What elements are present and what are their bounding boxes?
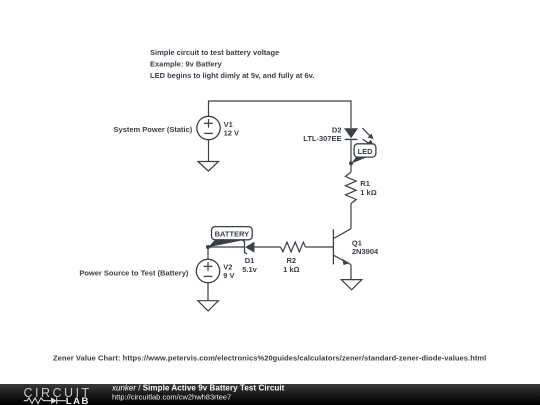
svg-text:2N3904: 2N3904: [352, 247, 379, 256]
svg-text:Simple circuit to test battery: Simple circuit to test battery voltage: [150, 48, 279, 57]
node: battery net junction dot: [206, 245, 210, 249]
diode D1 zener: [242, 240, 255, 254]
node LED (callout flag): [351, 144, 376, 164]
diode D2 LED LTL-307EE: [344, 128, 374, 145]
svg-text:D2: D2: [332, 126, 342, 135]
wire: D2 to R1: [350, 139, 352, 172]
wire: Q1 emitter to ground: [350, 265, 352, 280]
svg-text:V1: V1: [224, 120, 233, 129]
svg-text:http://circuitlab.com/cw2hwh83: http://circuitlab.com/cw2hwh83rtee7: [112, 393, 231, 402]
svg-text:System Power (Static): System Power (Static): [114, 125, 193, 134]
label D2 LTL-307EE: [303, 126, 341, 144]
wire: node to D1: [208, 246, 244, 248]
resistor R2: [281, 242, 306, 252]
label Q1 2N3904: [352, 239, 379, 257]
annotation: circuit description text: [150, 48, 314, 80]
node: LED net junction dot: [349, 161, 353, 165]
svg-text:R1: R1: [360, 179, 370, 188]
svg-text:BATTERY: BATTERY: [215, 230, 250, 239]
node BATTERY (callout flag): [208, 227, 252, 248]
label R1 1 kOhm: [360, 179, 376, 197]
svg-text:Example: 9v Battery: Example: 9v Battery: [150, 60, 223, 69]
svg-text:9 V: 9 V: [223, 271, 234, 280]
svg-text:12 V: 12 V: [224, 129, 239, 138]
svg-text:LED begins to light dimly at 5: LED begins to light dimly at 5v, and ful…: [150, 71, 314, 80]
wire: V1 to ground: [208, 140, 210, 162]
transistor Q1: [333, 229, 351, 265]
svg-text:1 kΩ: 1 kΩ: [360, 188, 376, 197]
svg-text:1 kΩ: 1 kΩ: [283, 265, 299, 274]
svg-text:LAB: LAB: [66, 396, 90, 405]
ground under Q1: [341, 280, 362, 290]
svg-text:V2: V2: [223, 262, 232, 271]
ground under V2: [198, 301, 219, 311]
voltage source V2: [196, 259, 219, 282]
logo CircuitLab: [24, 386, 92, 405]
svg-text:LED: LED: [358, 147, 374, 156]
voltage source V1: [197, 116, 220, 139]
svg-text:LTL-307EE: LTL-307EE: [303, 134, 341, 143]
wire: R2 to Q1 base: [306, 246, 334, 248]
resistor R1: [345, 172, 356, 204]
label V1 12 V: [224, 120, 239, 138]
wire: top rail from V1 to D2 branch: [209, 101, 352, 128]
label D1 5.1v: [242, 256, 257, 274]
svg-text:5.1v: 5.1v: [242, 265, 257, 274]
wire: R1 to Q1 collector: [350, 204, 352, 229]
wire: V2 to ground: [207, 283, 209, 301]
emitter arrowhead of Q1: [342, 259, 349, 265]
label R2 1 kOhm: [283, 256, 299, 274]
svg-text:Power Source to Test (Battery): Power Source to Test (Battery): [79, 268, 189, 277]
wire: D1 to R2: [254, 246, 280, 248]
svg-text:Zener Value Chart: https://www: Zener Value Chart: https://www.petervis.…: [53, 353, 486, 362]
label V2 9 V: [223, 262, 234, 280]
svg-text:Q1: Q1: [352, 239, 362, 248]
wire: node to V2: [207, 247, 209, 259]
svg-text:xunker / Simple Active 9v Batt: xunker / Simple Active 9v Battery Test C…: [111, 383, 285, 392]
footer bar: [0, 384, 540, 405]
ground under V1: [198, 162, 219, 172]
